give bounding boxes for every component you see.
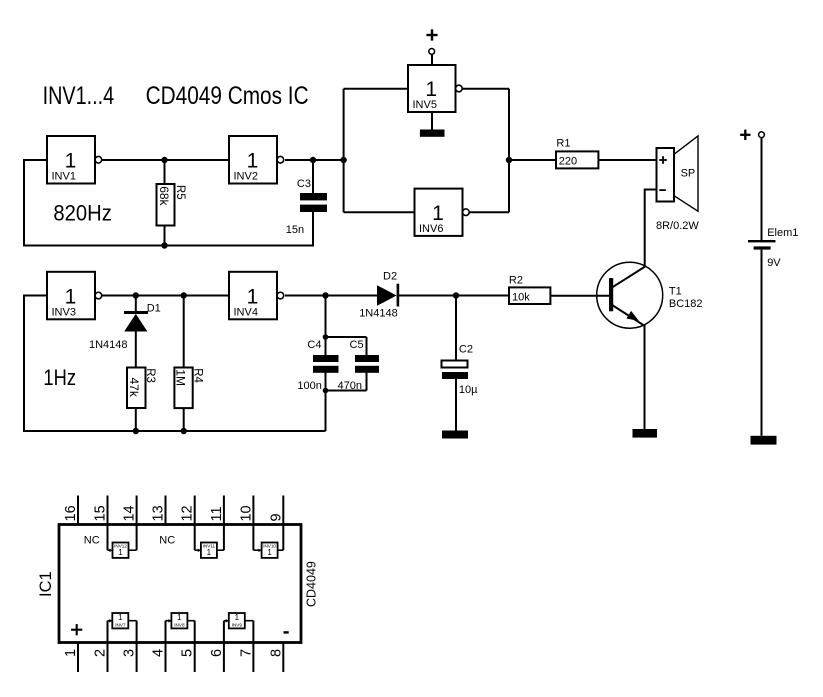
svg-text:9: 9 [268, 513, 284, 521]
svg-text:1N4148: 1N4148 [89, 339, 128, 351]
svg-text:13: 13 [151, 505, 167, 521]
svg-text:1: 1 [118, 548, 123, 557]
svg-text:1: 1 [247, 149, 259, 172]
svg-text:4: 4 [151, 649, 167, 657]
svg-text:NC: NC [84, 535, 100, 547]
svg-text:5: 5 [180, 649, 196, 657]
svg-text:10µ: 10µ [459, 384, 478, 396]
svg-text:1: 1 [65, 149, 77, 172]
svg-text:1M: 1M [173, 369, 187, 386]
svg-text:INV1: INV1 [52, 171, 76, 183]
svg-text:INV3: INV3 [52, 306, 76, 318]
svg-text:470n: 470n [338, 380, 362, 392]
svg-text:2: 2 [93, 649, 109, 657]
svg-text:1: 1 [177, 613, 182, 622]
svg-text:1N4148: 1N4148 [359, 308, 398, 320]
svg-text:8R/0.2W: 8R/0.2W [656, 220, 699, 232]
svg-text:INV5: INV5 [413, 99, 437, 111]
svg-text:INV1...4: INV1...4 [43, 82, 115, 110]
svg-text:6: 6 [209, 649, 225, 657]
svg-text:47k: 47k [127, 378, 141, 398]
svg-text:R1: R1 [556, 137, 570, 149]
svg-text:INV7: INV7 [115, 623, 126, 628]
svg-text:14: 14 [122, 505, 138, 521]
svg-text:12: 12 [180, 505, 196, 521]
svg-text:15: 15 [93, 505, 109, 521]
svg-text:11: 11 [209, 506, 225, 521]
svg-text:C2: C2 [459, 343, 473, 355]
svg-text:CD4049: CD4049 [305, 561, 319, 607]
svg-text:1: 1 [247, 285, 259, 308]
svg-text:CD4049 Cmos IC: CD4049 Cmos IC [146, 82, 309, 110]
svg-text:10k: 10k [512, 291, 530, 303]
svg-text:R5: R5 [174, 185, 186, 200]
svg-text:1: 1 [267, 548, 272, 557]
svg-text:Elem1: Elem1 [767, 227, 798, 239]
svg-text:10: 10 [238, 505, 254, 521]
svg-text:IC1: IC1 [37, 571, 55, 597]
svg-text:15n: 15n [286, 224, 304, 236]
svg-text:220: 220 [559, 156, 577, 168]
svg-text:1: 1 [432, 202, 444, 225]
svg-text:R3: R3 [144, 368, 156, 383]
svg-text:D1: D1 [147, 302, 161, 314]
svg-text:1: 1 [118, 613, 123, 622]
svg-text:1: 1 [207, 548, 212, 557]
svg-text:1Hz: 1Hz [43, 365, 76, 390]
svg-text:68k: 68k [157, 186, 171, 206]
svg-text:7: 7 [238, 649, 254, 657]
svg-text:1: 1 [425, 78, 437, 101]
svg-text:100n: 100n [297, 380, 321, 392]
svg-text:NC: NC [159, 535, 175, 547]
svg-text:R2: R2 [509, 275, 523, 287]
svg-text:SP: SP [681, 168, 696, 180]
svg-text:C3: C3 [297, 178, 311, 190]
svg-text:3: 3 [122, 649, 138, 657]
svg-text:INV6: INV6 [419, 223, 443, 235]
svg-text:D2: D2 [383, 270, 397, 282]
svg-text:820Hz: 820Hz [53, 201, 111, 226]
svg-text:INV2: INV2 [234, 171, 258, 183]
svg-text:BC182: BC182 [669, 298, 703, 310]
svg-text:1: 1 [63, 649, 79, 657]
svg-text:C5: C5 [350, 339, 364, 351]
svg-text:8: 8 [268, 649, 284, 657]
svg-text:C4: C4 [307, 339, 321, 351]
svg-text:9V: 9V [767, 257, 781, 269]
svg-text:1: 1 [65, 285, 77, 308]
svg-text:R4: R4 [191, 368, 203, 383]
svg-text:1: 1 [235, 613, 240, 622]
svg-text:INV8: INV8 [174, 623, 185, 628]
svg-text:16: 16 [63, 505, 79, 521]
svg-text:INV9: INV9 [232, 623, 243, 628]
svg-text:T1: T1 [669, 285, 682, 297]
svg-text:INV4: INV4 [234, 306, 258, 318]
